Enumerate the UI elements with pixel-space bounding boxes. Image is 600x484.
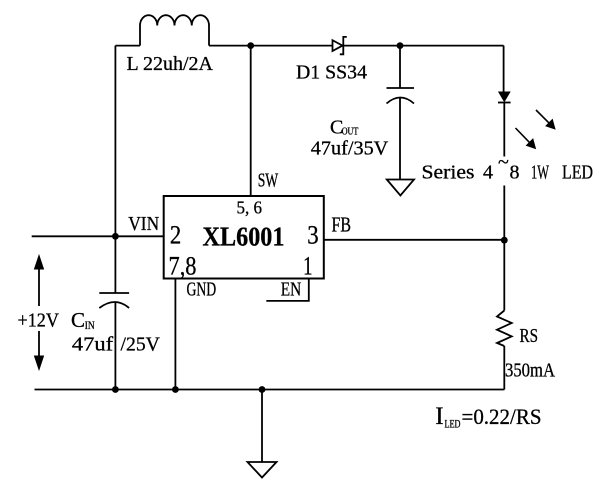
svg-text:=0.22/RS: =0.22/RS — [462, 404, 542, 429]
svg-text:OUT: OUT — [342, 126, 359, 138]
wire: CIN branch upper — [114, 236, 116, 293]
svg-text:2: 2 — [170, 221, 181, 250]
wire: ground branch — [261, 390, 263, 463]
node: rail junction ground — [259, 386, 266, 393]
node: VIN junction — [112, 233, 119, 240]
wire: GND pin stub — [174, 279, 176, 390]
wire: LED branch FB node to resistor — [503, 240, 505, 310]
ground (main) — [248, 462, 277, 478]
svg-text:VIN: VIN — [128, 213, 159, 235]
svg-text:XL6001: XL6001 — [203, 221, 285, 251]
svg-text:GND: GND — [187, 279, 217, 301]
svg-text:47uf/35V: 47uf/35V — [311, 138, 389, 160]
wire: SW stub — [250, 46, 252, 196]
node: junction at SW — [247, 42, 254, 49]
label Series 4~8 1W LED — [422, 152, 594, 184]
ground (COUT) — [387, 180, 414, 196]
svg-text:FB: FB — [332, 213, 352, 237]
inductor L — [140, 15, 209, 45]
svg-text:D1 SS34: D1 SS34 — [296, 62, 367, 84]
wire: LED cathode down to text gap — [503, 103, 505, 157]
svg-text:~: ~ — [498, 152, 509, 174]
node: rail junction GND — [172, 386, 179, 393]
svg-text:4: 4 — [483, 161, 493, 183]
capacitor COUT — [387, 88, 415, 104]
wire: FB horizontal — [324, 239, 505, 241]
svg-text:IN: IN — [85, 320, 96, 332]
resistor RS — [497, 311, 512, 347]
svg-text:350mA: 350mA — [505, 360, 555, 382]
wire: top rail middle segment — [209, 45, 333, 47]
wire: COUT branch upper — [399, 46, 401, 88]
svg-text:Series: Series — [422, 161, 475, 183]
svg-text:8: 8 — [510, 161, 520, 183]
formula I_LED=0.22/RS — [435, 403, 541, 431]
svg-text:SW: SW — [258, 170, 279, 192]
svg-text:/25V: /25V — [121, 333, 161, 355]
power +12V arrow lower — [35, 331, 44, 370]
op IC U1 XL6001 box — [164, 196, 324, 279]
wire: resistor to rail corner — [503, 346, 505, 390]
wire: CIN branch lower — [114, 303, 116, 390]
svg-text:C: C — [71, 308, 85, 332]
wire: top rail right segment — [343, 45, 503, 47]
svg-text:LED: LED — [562, 161, 593, 183]
wire: VIN horizontal — [32, 235, 164, 237]
wire: top right corner down to LED — [503, 46, 505, 92]
svg-text:1W: 1W — [531, 161, 549, 183]
svg-text:5, 6: 5, 6 — [237, 198, 263, 218]
svg-text:7,8: 7,8 — [169, 251, 197, 280]
svg-text:I: I — [435, 403, 443, 430]
wire: EN pin tail — [266, 279, 309, 301]
power +12V arrow upper — [35, 256, 44, 307]
wire: COUT branch lower — [399, 98, 401, 180]
node: junction at COUT — [397, 42, 404, 49]
node: FB junction — [501, 237, 508, 244]
svg-text:EN: EN — [281, 279, 302, 301]
svg-text:LED: LED — [445, 416, 461, 430]
wire: left input vertical (top rail to VIN node) — [114, 46, 116, 237]
svg-text:1: 1 — [303, 251, 312, 280]
LED light arrows — [516, 110, 555, 148]
node: rail junction CIN — [112, 386, 119, 393]
svg-text:47uf: 47uf — [72, 333, 114, 355]
svg-text:L 22uh/2A: L 22uh/2A — [127, 53, 214, 75]
capacitor CIN — [99, 293, 129, 308]
LED — [498, 92, 511, 103]
diode D1 (schottky) — [333, 37, 347, 54]
svg-text:RS: RS — [520, 325, 539, 347]
svg-text:+12V: +12V — [18, 310, 60, 332]
wire: below text down to FB node — [503, 186, 505, 241]
wire: top rail left segment — [115, 45, 140, 47]
svg-text:3: 3 — [307, 221, 318, 250]
wire: bottom rail — [35, 389, 505, 391]
